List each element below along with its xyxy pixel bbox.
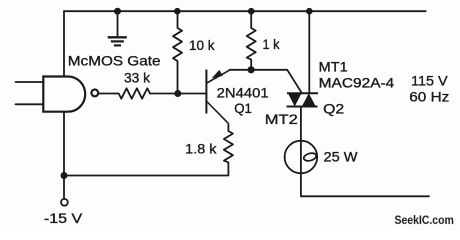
svg-text:-15 V: -15 V bbox=[44, 211, 83, 226]
resistor 33 k bbox=[119, 88, 150, 98]
lamp 25 W bbox=[285, 141, 318, 174]
resistor 1 k bbox=[247, 11, 256, 70]
svg-text:SeekIC.com: SeekIC.com bbox=[395, 215, 454, 227]
wire 33k to Q1 base through node bbox=[150, 93, 206, 95]
svg-text:Q1: Q1 bbox=[234, 101, 252, 116]
wire Q1 collector to triac gate bbox=[229, 70, 302, 94]
node junction top rail / 1k bbox=[248, 8, 255, 15]
wire NAND input B bbox=[16, 103, 44, 105]
ground bbox=[108, 11, 127, 45]
svg-text:McMOS Gate: McMOS Gate bbox=[68, 54, 161, 69]
svg-text:MT2: MT2 bbox=[265, 112, 298, 127]
svg-text:25 W: 25 W bbox=[324, 150, 358, 165]
node junction top rail / MT1 bbox=[306, 8, 313, 15]
node junction top rail / ground bbox=[114, 8, 121, 15]
wire bottom-left rail (-15V bus) bbox=[64, 175, 228, 177]
wire top ground rail bbox=[64, 10, 426, 12]
svg-text:2N4401: 2N4401 bbox=[217, 86, 269, 101]
gate U1 McMOS CMOS NAND gate bbox=[43, 77, 98, 112]
svg-text:10 k: 10 k bbox=[189, 38, 215, 53]
node -15V open terminal bbox=[61, 199, 68, 206]
node junction top rail / 10k bbox=[174, 8, 181, 15]
node junction 1k / collector / gate bbox=[248, 66, 255, 73]
svg-text:60 Hz: 60 Hz bbox=[409, 90, 449, 105]
wire NAND input A bbox=[16, 81, 44, 83]
transistor Q1 2N4401 bbox=[206, 70, 229, 124]
node junction -15V rail bbox=[61, 172, 68, 179]
wire MT2 vertical to lamp bbox=[300, 107, 302, 141]
wire gate VSS vertical down to -15V rail bbox=[63, 112, 65, 176]
resistor 1.8 k bbox=[224, 123, 233, 175]
resistor 10 k bbox=[173, 11, 182, 93]
wire left vertical: top rail to gate VDD bbox=[63, 11, 65, 76]
svg-text:33 k: 33 k bbox=[124, 71, 150, 86]
svg-text:MT1: MT1 bbox=[319, 60, 348, 75]
svg-text:Q2: Q2 bbox=[323, 102, 344, 117]
wire NAND output to 33k bbox=[99, 93, 119, 95]
transistor Q2 triac MAC92A-4 bbox=[287, 93, 319, 106]
svg-text:1 k: 1 k bbox=[263, 37, 280, 52]
wire MT1 vertical from top rail bbox=[308, 11, 310, 93]
wire through lamp bbox=[300, 141, 302, 174]
node junction 33k / 10k / Q1 base bbox=[174, 90, 181, 97]
wire lamp to bottom right rail bbox=[301, 173, 429, 196]
svg-text:1.8 k: 1.8 k bbox=[185, 142, 216, 157]
svg-text:115 V: 115 V bbox=[411, 74, 448, 89]
wire -15V terminal stem bbox=[63, 176, 65, 199]
svg-text:MAC92A-4: MAC92A-4 bbox=[319, 76, 395, 91]
